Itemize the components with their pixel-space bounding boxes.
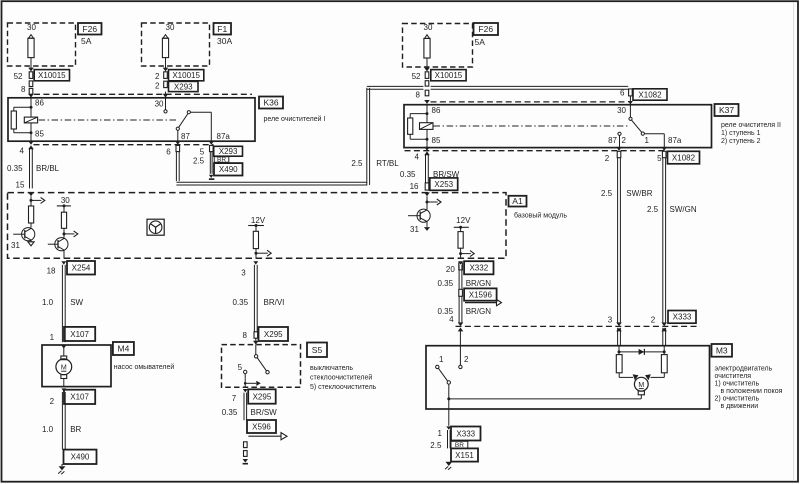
K36 relay coil bbox=[24, 117, 37, 123]
wire riser RT/BL bbox=[366, 88, 368, 185]
connector X333 interface line bbox=[456, 325, 701, 327]
A1 node branch arrow (R3) bbox=[255, 252, 258, 255]
wire fuse F26 to connector bbox=[30, 58, 32, 66]
K37 coil resistor leg bbox=[410, 113, 427, 115]
svg-text:7: 7 bbox=[232, 394, 237, 403]
fuse F26 symbol bbox=[28, 38, 34, 57]
svg-text:2: 2 bbox=[155, 82, 160, 91]
wire into K36 pin 30 bbox=[165, 92, 167, 95]
svg-text:85: 85 bbox=[432, 136, 441, 145]
connector X295 pin 7 bbox=[248, 389, 276, 403]
svg-text:X254: X254 bbox=[72, 264, 91, 273]
connector X10015 pin 52 bbox=[29, 72, 33, 79]
connector X254 bbox=[67, 261, 95, 275]
svg-text:2) очиститель: 2) очиститель bbox=[715, 395, 760, 402]
svg-text:SW: SW bbox=[70, 298, 83, 307]
svg-text:8: 8 bbox=[416, 90, 421, 99]
relay K37 box bbox=[404, 105, 712, 148]
connector X596 bbox=[247, 420, 276, 433]
junction 86 bbox=[30, 106, 33, 109]
svg-text:X107: X107 bbox=[70, 330, 89, 339]
wire M3 common to X333 pin 1 (BR 2.5) bbox=[448, 409, 450, 426]
svg-text:X1596: X1596 bbox=[469, 290, 493, 299]
svg-text:X10015: X10015 bbox=[38, 71, 66, 80]
svg-text:4: 4 bbox=[20, 147, 25, 156]
A1 transistor Q1 bbox=[30, 223, 32, 228]
K36 switch arm bbox=[187, 111, 190, 114]
ground symbol below X596 bbox=[243, 459, 248, 463]
A1 resistor R1 bbox=[29, 206, 34, 223]
label A1 bbox=[509, 196, 527, 207]
svg-text:2: 2 bbox=[622, 136, 627, 145]
A1 transistor Q2 bbox=[55, 238, 68, 251]
svg-text:M4: M4 bbox=[117, 344, 129, 354]
svg-text:очистителя: очистителя bbox=[715, 373, 752, 380]
svg-text:87: 87 bbox=[608, 136, 617, 145]
svg-text:5: 5 bbox=[238, 363, 243, 372]
label M4 bbox=[113, 342, 134, 355]
svg-text:F1: F1 bbox=[217, 24, 227, 34]
svg-text:X293: X293 bbox=[219, 147, 238, 156]
svg-text:SW/GN: SW/GN bbox=[670, 205, 697, 214]
svg-text:6: 6 bbox=[166, 147, 171, 156]
svg-text:стеклоочистителей: стеклоочистителей bbox=[310, 373, 372, 381]
svg-text:30: 30 bbox=[166, 23, 175, 32]
wire K37 pin 87a (SW/GN) bbox=[661, 147, 667, 151]
connector X293 (87a) bbox=[214, 146, 243, 156]
svg-text:1.0: 1.0 bbox=[42, 425, 54, 434]
svg-text:5A: 5A bbox=[475, 37, 486, 47]
wire A1 pin 20 (BR/GN 0.35) bbox=[458, 261, 463, 264]
svg-text:0.35: 0.35 bbox=[233, 298, 249, 307]
svg-text:85: 85 bbox=[35, 130, 44, 139]
svg-text:1: 1 bbox=[50, 333, 55, 342]
wire K36 pin 4 to A1 pin 15 (BR/BL) bbox=[28, 141, 34, 145]
label S5 bbox=[307, 343, 327, 358]
svg-text:3: 3 bbox=[608, 315, 613, 324]
M3 diode link bbox=[618, 350, 621, 353]
svg-text:8: 8 bbox=[21, 85, 26, 94]
svg-text:X333: X333 bbox=[456, 429, 475, 438]
dashed interface line above K36 bbox=[34, 93, 252, 95]
svg-text:2: 2 bbox=[464, 355, 469, 364]
junction K37 85 bbox=[426, 138, 429, 141]
svg-text:2: 2 bbox=[50, 397, 55, 406]
svg-text:2.5: 2.5 bbox=[601, 189, 613, 198]
svg-text:4: 4 bbox=[449, 315, 454, 324]
svg-text:31: 31 bbox=[410, 225, 419, 234]
svg-text:2: 2 bbox=[155, 72, 160, 81]
svg-text:52: 52 bbox=[14, 72, 23, 81]
K36 pin 87 internal wire bbox=[177, 130, 179, 141]
svg-text:2.5: 2.5 bbox=[430, 441, 442, 450]
svg-text:A1: A1 bbox=[512, 196, 523, 206]
dashed interface line below K36 bbox=[34, 144, 214, 146]
svg-text:X295: X295 bbox=[253, 392, 272, 401]
connector X490 (pump ground) bbox=[64, 450, 97, 464]
svg-text:5: 5 bbox=[200, 147, 205, 156]
connector X1082 pin 6 bbox=[629, 89, 633, 96]
svg-text:F26: F26 bbox=[82, 24, 97, 34]
svg-text:2) ступень 2: 2) ступень 2 bbox=[721, 138, 761, 145]
K37 pin 87 contact bbox=[618, 132, 621, 135]
K36 coil resistor leg bbox=[14, 106, 31, 108]
A1 resistor R4 bbox=[458, 232, 463, 249]
wire fuse F1 to connector bbox=[165, 58, 167, 69]
connector X1596 bbox=[459, 289, 463, 296]
svg-text:87a: 87a bbox=[668, 136, 682, 145]
wire X253 into A1 bbox=[424, 192, 430, 196]
svg-text:X295: X295 bbox=[264, 330, 283, 339]
svg-text:X10015: X10015 bbox=[172, 71, 200, 80]
svg-text:S5: S5 bbox=[312, 345, 323, 355]
dashed interface line below K37 bbox=[405, 150, 668, 152]
connector X295 pin 8 bbox=[254, 332, 258, 338]
M3 armature windings feed (pin 3) bbox=[617, 328, 619, 346]
connector X293 pin 2 bbox=[164, 81, 168, 87]
label F26 bbox=[78, 23, 102, 35]
wire into S5 bbox=[255, 338, 257, 341]
svg-text:M3: M3 bbox=[716, 345, 728, 355]
dashed interface line above K37 bbox=[431, 101, 629, 103]
svg-text:X10015: X10015 bbox=[435, 71, 463, 80]
svg-text:52: 52 bbox=[412, 72, 421, 81]
svg-text:выключатель: выключатель bbox=[310, 365, 353, 372]
svg-text:3: 3 bbox=[241, 268, 246, 277]
svg-text:30: 30 bbox=[424, 23, 433, 32]
wiper motor M3 box bbox=[426, 346, 710, 409]
svg-text:X151: X151 bbox=[455, 451, 474, 460]
svg-text:0.35: 0.35 bbox=[438, 279, 454, 288]
connector X151 (motor ground) bbox=[451, 448, 478, 461]
svg-text:X490: X490 bbox=[219, 165, 238, 174]
S5 contact 5 output wire bbox=[244, 374, 246, 388]
svg-text:30: 30 bbox=[27, 23, 36, 32]
svg-text:BR/GN: BR/GN bbox=[466, 307, 492, 316]
svg-text:реле очистителей I: реле очистителей I bbox=[264, 115, 326, 123]
svg-text:5A: 5A bbox=[81, 36, 92, 46]
svg-text:1: 1 bbox=[645, 136, 650, 145]
svg-text:86: 86 bbox=[35, 99, 44, 108]
svg-text:12V: 12V bbox=[251, 216, 266, 225]
K36 coil-contact dash-dot link bbox=[39, 119, 177, 121]
svg-text:8: 8 bbox=[243, 331, 248, 340]
svg-text:6: 6 bbox=[620, 89, 625, 98]
label K36 bbox=[259, 97, 283, 109]
svg-text:2.5: 2.5 bbox=[351, 159, 363, 168]
connector X1082 pin 5 bbox=[668, 151, 700, 164]
wire A1 pin 18 to M4 (SW 1.0) bbox=[61, 261, 66, 264]
svg-text:X107: X107 bbox=[70, 393, 89, 402]
svg-text:12V: 12V bbox=[456, 216, 471, 225]
svg-text:30: 30 bbox=[155, 99, 164, 108]
branch arrow from X596 bbox=[248, 435, 281, 437]
junction 85 bbox=[30, 131, 33, 134]
svg-text:30: 30 bbox=[61, 196, 70, 205]
svg-text:30A: 30A bbox=[217, 36, 232, 46]
junction K37 86 bbox=[426, 112, 429, 115]
connector pin 8 bbox=[29, 81, 33, 87]
K36 pin 86 wire bbox=[30, 98, 32, 141]
wire top feed to X1082 pin 6 bbox=[367, 85, 424, 87]
label F26 right bbox=[474, 23, 499, 35]
relay K36 box bbox=[8, 98, 255, 141]
connector X333 pin 1 bbox=[451, 427, 481, 441]
module A1 box (dashed) bbox=[8, 193, 507, 259]
svg-text:реле очистителя II: реле очистителя II bbox=[721, 122, 781, 129]
K37 pin 86 wire bbox=[426, 104, 428, 148]
svg-text:в положении покоя: в положении покоя bbox=[721, 388, 783, 395]
connector X332 bbox=[464, 261, 493, 274]
svg-text:2: 2 bbox=[651, 315, 656, 324]
fuse box F26 right (dashed) bbox=[403, 24, 473, 68]
svg-text:K37: K37 bbox=[719, 105, 734, 115]
svg-text:BR: BR bbox=[70, 425, 81, 434]
A1 wiper pictogram bbox=[147, 219, 164, 235]
svg-text:электродвигатель: электродвигатель bbox=[715, 365, 773, 372]
K37 pin 87a internal wire bbox=[644, 133, 664, 135]
M3 park switch contact 2 wire bbox=[459, 328, 461, 365]
svg-text:X490: X490 bbox=[71, 453, 90, 462]
svg-text:0.35: 0.35 bbox=[7, 164, 23, 173]
svg-text:BR/GN: BR/GN bbox=[466, 279, 492, 288]
wire K37 pin 87 (SW/BR) bbox=[616, 147, 622, 151]
fuse F26 right symbol bbox=[424, 38, 430, 58]
svg-text:4: 4 bbox=[415, 153, 420, 162]
svg-text:16: 16 bbox=[410, 182, 419, 191]
wire fuse to connector bbox=[426, 58, 428, 69]
svg-text:K36: K36 bbox=[263, 98, 278, 108]
svg-text:BR/SW: BR/SW bbox=[251, 408, 278, 417]
K36 pin 87a internal wire bbox=[190, 111, 211, 113]
M3 park switch arm bbox=[438, 368, 447, 381]
svg-text:BR/BL: BR/BL bbox=[36, 164, 60, 173]
svg-text:2: 2 bbox=[605, 154, 610, 163]
svg-text:X596: X596 bbox=[252, 422, 271, 431]
connector X10015 pin 52 right bbox=[425, 72, 429, 79]
fuse box F26 left (dashed) bbox=[8, 23, 76, 66]
svg-text:31: 31 bbox=[11, 241, 20, 250]
ground symbol below X151 bbox=[445, 462, 452, 466]
M3 armature windings feed (pin 2) bbox=[662, 328, 664, 346]
svg-text:2.5: 2.5 bbox=[647, 205, 659, 214]
label K37 bbox=[715, 104, 739, 116]
svg-text:1: 1 bbox=[438, 429, 443, 438]
wire A1 pin 3 to S5 (BR/VI 0.35) bbox=[253, 261, 258, 264]
svg-text:87: 87 bbox=[181, 132, 190, 141]
svg-text:насос омывателей: насос омывателей bbox=[114, 363, 175, 371]
S5 switch arm bbox=[257, 358, 266, 371]
svg-text:87a: 87a bbox=[217, 132, 231, 141]
ground symbol below X490 bbox=[61, 464, 63, 466]
svg-text:5) стеклоочиститель: 5) стеклоочиститель bbox=[310, 384, 377, 391]
wire colour BR (87a) bbox=[214, 157, 229, 163]
M3 brush leads bbox=[618, 373, 620, 378]
svg-text:RT/BL: RT/BL bbox=[376, 159, 399, 168]
svg-text:1: 1 bbox=[439, 355, 444, 364]
M3 winding resistor (speed 1) bbox=[616, 355, 622, 373]
fuse box F1 (dashed) bbox=[142, 23, 210, 66]
svg-text:X1082: X1082 bbox=[638, 90, 662, 99]
M3 common wire bbox=[448, 384, 450, 409]
A1 resistor R2 bbox=[61, 212, 66, 228]
connector X253 pin 16 bbox=[425, 183, 429, 190]
branch arrow from X1596 bbox=[465, 302, 497, 304]
A1 ground terminal 31 (Q3) bbox=[424, 227, 430, 231]
connector X107 pin 2 bbox=[64, 390, 95, 404]
svg-text:M: M bbox=[638, 382, 644, 389]
K37 relay coil bbox=[420, 123, 434, 130]
svg-text:0.35: 0.35 bbox=[222, 408, 238, 417]
wire X1596 to X333 pin 4 bbox=[458, 296, 460, 322]
wire M4 to X490 (BR 1.0) bbox=[61, 388, 66, 391]
A1 ground terminal 31 (Q1) bbox=[28, 242, 34, 246]
S5 switch pivot bbox=[255, 345, 257, 355]
wire into K37 pin 86 bbox=[424, 100, 430, 104]
wire X1082-6 into K37 pin 30 bbox=[629, 96, 631, 101]
A1 input 15 branch bbox=[30, 196, 32, 206]
svg-text:5: 5 bbox=[657, 154, 662, 163]
svg-text:2.5: 2.5 bbox=[193, 156, 205, 165]
svg-text:X332: X332 bbox=[469, 264, 488, 273]
label M3 bbox=[712, 344, 733, 357]
svg-text:1) ступень 1: 1) ступень 1 bbox=[721, 130, 761, 137]
svg-text:в движении: в движении bbox=[721, 403, 759, 410]
svg-text:X253: X253 bbox=[434, 180, 453, 189]
A1 transistor Q3 (X253 input) bbox=[426, 196, 428, 209]
K37 coil-contact dash-dot link bbox=[434, 125, 630, 127]
svg-text:базовый модуль: базовый модуль bbox=[514, 212, 567, 220]
fuse F1 symbol bbox=[162, 38, 168, 57]
connector X490 (87a ground) bbox=[214, 163, 243, 175]
M3 winding resistor (speed 2) bbox=[661, 355, 667, 373]
washer pump M4 box bbox=[61, 345, 66, 348]
A1 node branch arrow (R4) bbox=[459, 252, 462, 255]
wire colour BR (motor ground) bbox=[451, 441, 468, 448]
K37 switch arm bbox=[632, 120, 642, 132]
M4 motor bbox=[63, 345, 65, 356]
svg-text:1) очиститель: 1) очиститель bbox=[715, 380, 760, 387]
wire S5 pin 7 to X596 (BR/SW 0.35) bbox=[243, 389, 248, 392]
svg-text:SW/BR: SW/BR bbox=[626, 189, 652, 198]
wire into K36 pin 86 bbox=[28, 94, 34, 98]
svg-text:30: 30 bbox=[617, 106, 626, 115]
svg-text:X333: X333 bbox=[673, 313, 692, 322]
connector X10015 pin 2 bbox=[164, 72, 168, 79]
connector pin 8 right bbox=[425, 81, 429, 86]
M3 motor armature bbox=[634, 377, 648, 391]
svg-text:1.0: 1.0 bbox=[42, 298, 54, 307]
svg-text:X1082: X1082 bbox=[672, 153, 696, 162]
svg-text:X293: X293 bbox=[174, 82, 193, 91]
svg-text:20: 20 bbox=[446, 265, 455, 274]
A1 node branch arrow bbox=[63, 232, 66, 235]
svg-text:86: 86 bbox=[432, 106, 441, 115]
connector X333 label bbox=[668, 311, 696, 324]
wire K37 pin 85 to X253/A1 (BR/SW) bbox=[424, 147, 430, 151]
svg-text:15: 15 bbox=[16, 181, 25, 190]
svg-text:BR/VI: BR/VI bbox=[264, 298, 285, 307]
svg-text:18: 18 bbox=[47, 267, 56, 276]
label F1 bbox=[214, 23, 232, 35]
wire K36 pin 87a bbox=[209, 141, 215, 145]
svg-text:0.35: 0.35 bbox=[400, 170, 416, 179]
wire K36 pin 87 (to RT/BL riser) bbox=[175, 141, 181, 145]
A1 resistor R3 bbox=[253, 231, 258, 248]
svg-text:F26: F26 bbox=[478, 24, 493, 34]
svg-text:M: M bbox=[61, 364, 67, 371]
switch S5 box (dashed) bbox=[222, 345, 301, 388]
ground terminal X490 bar bbox=[209, 175, 214, 178]
dashed continuation wire below X596 bbox=[244, 442, 248, 448]
